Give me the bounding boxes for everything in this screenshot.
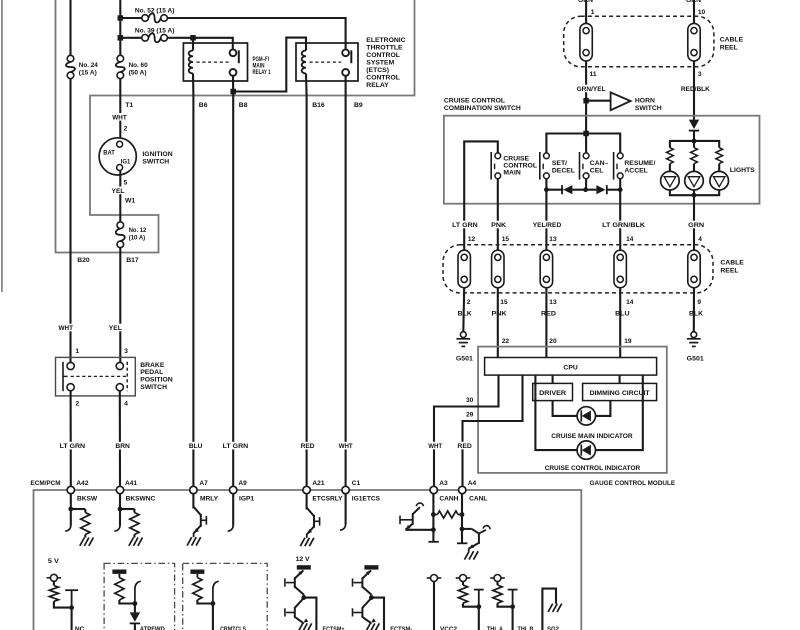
svg-text:PNK: PNK [492, 311, 507, 318]
fuse No.52 (15 A) [142, 15, 149, 22]
switch CAN-CEL [579, 152, 581, 180]
svg-text:WHT: WHT [59, 325, 74, 332]
DIMMING CIRCUIT box [583, 383, 657, 400]
wire battery feed to ignition switch [119, 0, 121, 56]
node junction switch feed bus [583, 131, 589, 137]
wire cruise control indicator to CPU right [596, 375, 643, 450]
wire label RED/BLK [680, 85, 711, 93]
svg-text:RESUME/: RESUME/ [624, 160, 655, 167]
wire label BRN [114, 442, 130, 450]
wire GRN to cable reel pin 10 [693, 0, 695, 23]
svg-text:RELAY 1: RELAY 1 [253, 69, 271, 76]
cable reel upper dashed box [564, 16, 714, 67]
svg-text:GRN: GRN [688, 222, 704, 229]
NC internal stub and bar [71, 590, 73, 607]
svg-text:ETCSRLY: ETCSRLY [312, 495, 343, 502]
svg-text:LT GRN: LT GRN [452, 222, 478, 229]
svg-text:No. 39 (15 A): No. 39 (15 A) [135, 28, 175, 35]
THL B internal stub and bar [512, 590, 514, 607]
svg-text:CONTROL: CONTROL [366, 75, 400, 82]
svg-text:HORN: HORN [635, 98, 655, 105]
svg-text:LT GRN: LT GRN [60, 443, 86, 450]
switch RESUME/ACCEL [613, 152, 615, 180]
wire B9 to ECM C1 (WHT) [345, 96, 347, 487]
svg-text:A41: A41 [125, 480, 137, 487]
svg-text:LT GRN/BLK: LT GRN/BLK [602, 222, 645, 229]
wire ETCS coil to B16 [305, 74, 308, 96]
transistor CANH driver [412, 513, 414, 525]
diode set-cancel [563, 185, 572, 194]
node junction ATPFWD [133, 601, 138, 606]
wire label YEL/RED [532, 221, 563, 229]
svg-text:14: 14 [626, 299, 634, 306]
power bar ECTSM+ 12V [297, 565, 311, 569]
node junction ECTSM+ [301, 595, 306, 600]
wire set/decel to diode bus [545, 179, 547, 190]
ground G501 right [691, 332, 697, 338]
node junction THL B [510, 604, 515, 609]
svg-text:RED: RED [457, 443, 472, 450]
resistor light centre [693, 141, 695, 148]
svg-text:PNK: PNK [491, 222, 506, 229]
svg-text:BLK: BLK [689, 311, 703, 318]
svg-text:CANL: CANL [469, 495, 487, 502]
svg-text:VCC2: VCC2 [440, 626, 457, 630]
svg-text:13: 13 [549, 299, 557, 306]
svg-text:BLU: BLU [189, 443, 203, 450]
wire fuse No.52 feed line [120, 17, 142, 19]
wire label RED [300, 442, 316, 450]
wire B8 to ECM A9 (LT GRN) [232, 96, 234, 487]
svg-text:A4: A4 [468, 480, 477, 487]
node junction CANH-resistor [431, 512, 436, 517]
LED cruise main indicator [577, 407, 595, 425]
relay ETCS coil [302, 51, 306, 74]
node terminal A3 (CANH) [430, 486, 437, 493]
wire label PNK lower [491, 309, 508, 317]
node junction horn branch [583, 98, 589, 104]
svg-text:4: 4 [698, 236, 702, 243]
wire label BLK left [457, 309, 473, 317]
svg-text:GRN/YEL: GRN/YEL [577, 86, 606, 93]
wire BLK to ground G501 right [693, 288, 695, 332]
wire GRN lamps to reel pin 4 [693, 190, 695, 250]
svg-text:13: 13 [549, 236, 557, 243]
connector cable reel lower 13-13 [540, 250, 552, 288]
svg-text:CRMTCLS: CRMTCLS [220, 626, 246, 630]
brake pedal position switch box [56, 357, 136, 396]
svg-text:ECTSM-: ECTSM- [390, 626, 412, 630]
node terminal A41 (BKSWNC) [116, 486, 123, 493]
fuse No.60 (50 A) [117, 55, 124, 62]
svg-text:RED: RED [301, 443, 315, 450]
wire DRIVER to cruise main indicator [553, 401, 578, 416]
relay PGM-FI contact top [230, 49, 237, 56]
wire PGM-FI contact to B8 [232, 76, 234, 96]
wire brake pin4 to A41 (BRN) [119, 391, 121, 487]
wire BKSW to pull resistor [71, 508, 86, 510]
wire from fuse No.24 down to brake pedal switch pin 1 [69, 79, 71, 364]
wire ignition IG1 down to W1 [119, 171, 121, 223]
svg-text:9: 9 [697, 299, 701, 306]
wire THL B resistor to junction [498, 603, 513, 607]
wire B16 to ECM A21 (RED) [306, 96, 308, 487]
svg-text:IGP1: IGP1 [239, 495, 254, 502]
node junction BKSWNC [118, 507, 123, 512]
svg-text:B9: B9 [354, 102, 363, 109]
ground MRLY [187, 537, 192, 545]
wire PGM-FI coil to B6 [192, 74, 194, 96]
svg-text:No. 12: No. 12 [129, 227, 147, 234]
svg-text:CABLE: CABLE [720, 36, 744, 43]
node junction CRMTCLS [211, 601, 216, 606]
lamp left [669, 164, 671, 172]
wire CPU to cruise control indicator left [535, 375, 577, 450]
svg-text:LT GRN: LT GRN [223, 443, 249, 450]
svg-text:No. 24: No. 24 [79, 62, 98, 69]
wire label LT GRN [59, 442, 87, 450]
svg-text:G501: G501 [456, 356, 473, 363]
wire ECTSM- output [371, 598, 384, 630]
diode ATPFWD [130, 612, 140, 621]
wire brake pin2 to A42 (LT GRN) [70, 391, 72, 487]
svg-text:B16: B16 [312, 102, 325, 109]
svg-text:THROTTLE: THROTTLE [366, 45, 403, 52]
svg-text:RELAY: RELAY [366, 82, 389, 89]
wire RED reel to CPU pin 20 [545, 288, 547, 358]
svg-text:No. 60: No. 60 [129, 62, 148, 69]
DRIVER box [533, 383, 573, 400]
ground ECTSM- [366, 623, 371, 630]
wire BKSWNC internal [119, 494, 121, 526]
IGP1 internal continuation arc [228, 526, 234, 532]
node junction on B8 wire [230, 89, 236, 95]
wire pin 29 RED to A4 [463, 375, 523, 486]
wire GRN/YEL from reel pin 11 [585, 61, 587, 134]
svg-text:SWITCH: SWITCH [142, 159, 169, 166]
svg-text:SET/: SET/ [552, 160, 567, 167]
svg-text:WHT: WHT [339, 443, 353, 450]
connector cable reel lower 4-9 [688, 250, 700, 288]
svg-text:BKSW: BKSW [77, 495, 98, 502]
wire LT GRN feed to cruise main switch [464, 141, 498, 250]
svg-text:SG2: SG2 [547, 626, 559, 630]
wire junction down to PGM-FI relay coil [192, 38, 194, 51]
wire diode to lights junction [693, 131, 695, 141]
wire diode bus right [607, 189, 620, 191]
resistor BKSW pull-down [81, 513, 90, 535]
BKSW internal continuation arc [65, 526, 71, 532]
node terminal A21 (ETCSRLY) [303, 486, 310, 493]
wire THL A output [478, 607, 480, 630]
svg-text:YEL: YEL [112, 188, 125, 195]
5V reference terminal circle [50, 574, 57, 581]
svg-text:MRLY: MRLY [200, 495, 219, 502]
wire diode bus left [546, 189, 563, 191]
svg-text:RED: RED [541, 311, 556, 318]
wire THL A to resistor [462, 582, 464, 586]
wire to junction ECTSM+ [303, 595, 305, 599]
svg-text:5 V: 5 V [48, 558, 60, 565]
ground G501 left [460, 332, 466, 338]
svg-text:CRUISE CONTROL: CRUISE CONTROL [444, 98, 505, 105]
wire THL A resistor to junction [463, 603, 479, 607]
svg-text:2: 2 [124, 126, 128, 133]
wire MRLY internal [192, 494, 194, 509]
svg-text:ECTSM+: ECTSM+ [323, 626, 345, 630]
ignition switch IG1 contact [117, 165, 123, 171]
svg-text:CAN–: CAN– [590, 160, 609, 167]
svg-text:3: 3 [698, 71, 702, 78]
wire ECTSM+ output [304, 598, 317, 630]
ground CANL driver [465, 551, 470, 559]
relay PGM-FI coil [189, 51, 193, 74]
svg-text:BRN: BRN [115, 443, 130, 450]
brake switch actuator bar [62, 362, 64, 391]
svg-text:C1: C1 [352, 480, 361, 487]
svg-text:15: 15 [502, 236, 510, 243]
wire to junction ECTSM- [370, 595, 372, 599]
horn switch symbol [611, 92, 631, 110]
lamp right [718, 164, 720, 172]
node terminal A7 (MRLY) [190, 486, 197, 493]
relay ETCS armature dashed link [310, 61, 342, 63]
svg-text:PEDAL: PEDAL [140, 369, 163, 376]
brake switch contact pin2 [67, 384, 74, 391]
wire cruise main indicator to DIMMING CIRCUIT [596, 401, 611, 416]
relay PGM-FI contact bar [238, 50, 240, 63]
svg-text:4: 4 [124, 401, 128, 408]
svg-text:IG1ETCS: IG1ETCS [352, 495, 381, 502]
resistor THL B [493, 585, 502, 603]
brake switch dashed link [71, 375, 127, 377]
svg-text:CEL: CEL [590, 167, 604, 174]
wire WHT feed from fuse No.24 [69, 0, 71, 58]
relay ETCS contact bottom [342, 69, 349, 76]
node junction lights feed [692, 139, 697, 144]
node terminal A42 (BKSW) [67, 486, 74, 493]
svg-text:B20: B20 [77, 257, 90, 264]
svg-text:GRN: GRN [578, 0, 593, 4]
wire BKSWNC to pull resistor [120, 508, 134, 510]
CRMTCLS internal stub hook [213, 581, 219, 603]
node junction BKSW [68, 507, 73, 512]
wire resistor to NC junction [54, 601, 72, 607]
wire No.52 line to ETCS relay contact [167, 18, 345, 50]
svg-text:B6: B6 [199, 102, 208, 109]
svg-text:NC: NC [75, 626, 85, 630]
fuse No.24 (15 A) [67, 55, 74, 62]
node terminal A9 (IGP1) [230, 486, 237, 493]
svg-text:ACCEL: ACCEL [624, 167, 647, 174]
wire left edge (cropped box) [1, 0, 3, 292]
node junction CANL-resistor [460, 512, 465, 517]
wire label RED lower [540, 309, 557, 317]
svg-text:30: 30 [466, 397, 474, 404]
svg-text:A9: A9 [238, 480, 247, 487]
svg-text:CRUISE CONTROL INDICATOR: CRUISE CONTROL INDICATOR [545, 465, 641, 472]
svg-text:1: 1 [591, 9, 595, 16]
node junction ECTSM- [369, 595, 374, 600]
power bar ECTSM- 12V [364, 565, 378, 569]
VCC2 terminal circle [431, 575, 438, 582]
wire resistor to CRMTCLS junction [197, 600, 213, 604]
svg-text:(15 A): (15 A) [79, 70, 97, 77]
svg-text:2: 2 [75, 401, 79, 408]
svg-text:BRAKE: BRAKE [140, 362, 165, 369]
svg-text:GAUGE CONTROL MODULE: GAUGE CONTROL MODULE [590, 480, 676, 487]
svg-text:B17: B17 [126, 257, 139, 264]
wire ETCS contact to B9 [345, 76, 347, 96]
wire to horn switch [586, 100, 610, 102]
wire SG2 to internal ground [542, 589, 556, 630]
svg-text:SWITCH: SWITCH [140, 384, 167, 391]
wire lamps common bus [670, 190, 719, 195]
wire 5V to resistor [53, 581, 55, 585]
node junction No.39 branch [118, 35, 124, 41]
wire CANH internal [432, 494, 434, 542]
wire fuse No.60 to ignition switch terminal T1 [119, 79, 121, 142]
brake switch right dashed bar [126, 362, 128, 391]
wire resume/accel to diode bus [619, 179, 621, 190]
svg-text:A21: A21 [312, 480, 324, 487]
relay PGM-FI contact bottom [230, 69, 237, 76]
svg-text:A42: A42 [76, 480, 88, 487]
relay ETCS contact bar [350, 50, 352, 63]
resistor CAN termination [433, 514, 437, 516]
transistor ECTSM- low-side [362, 598, 371, 608]
svg-text:14: 14 [626, 236, 634, 243]
relay ETCS CONTROL RELAY box [296, 43, 358, 81]
svg-text:WHT: WHT [428, 443, 442, 450]
svg-text:(10 A): (10 A) [129, 235, 146, 242]
svg-text:1: 1 [75, 348, 79, 355]
wire THL B output [512, 607, 514, 630]
power bar CRMTCLS [190, 570, 204, 574]
relay PGM-FI MAIN RELAY 1 box [183, 43, 247, 81]
svg-text:3: 3 [124, 348, 128, 355]
relay ETCS contact top [342, 49, 349, 56]
wire label GRN/YEL [576, 85, 607, 93]
svg-text:CONTROL: CONTROL [503, 163, 537, 170]
transistor ECTSM+ high-side [294, 577, 296, 588]
op ignition switch circle [99, 138, 136, 175]
wire CANH transistor emitter to junction [405, 529, 433, 531]
wire PNK reel to CPU pin 22 [497, 288, 499, 358]
wire label YEL above brake switch [108, 324, 123, 332]
svg-text:REEL: REEL [720, 45, 738, 52]
wire label WHT [111, 113, 128, 121]
svg-text:No. 52 (15 A): No. 52 (15 A) [135, 7, 175, 14]
wire diode to ATPFWD output [134, 623, 136, 630]
wire CPU to DIMMING CIRCUIT [619, 375, 621, 383]
switch SET/DECEL [539, 152, 541, 180]
svg-text:DIMMING CIRCUIT: DIMMING CIRCUIT [590, 390, 650, 397]
wire cancel to diode bus [585, 179, 587, 190]
svg-text:COMBINATION SWITCH: COMBINATION SWITCH [444, 105, 521, 112]
svg-text:(50 A): (50 A) [129, 70, 147, 77]
fuse No.12 (10 A) [117, 222, 124, 229]
ground BKSW [80, 538, 85, 546]
svg-text:CANH: CANH [439, 495, 458, 502]
node junction CANL-transistor [460, 527, 465, 532]
wire label RED gauge [456, 442, 473, 450]
svg-text:DRIVER: DRIVER [539, 390, 566, 397]
CANH wire end bar [428, 541, 438, 543]
svg-text:A3: A3 [439, 480, 448, 487]
transistor ECTSM+ low-side [295, 598, 304, 608]
svg-text:29: 29 [466, 412, 474, 419]
ground BKSWNC [129, 538, 134, 546]
wire label LT GRN cruise [451, 221, 479, 229]
node junction PGM-FI relay coil feed [190, 35, 196, 41]
wire CRMTCLS output [212, 604, 214, 630]
svg-text:22: 22 [502, 338, 510, 345]
THL A terminal circle [460, 575, 467, 582]
diode cancel-resume [596, 185, 605, 194]
svg-text:YEL: YEL [109, 325, 122, 332]
ECM/PCM box [34, 490, 582, 630]
transistor MRLY driver [193, 507, 200, 516]
node junction set/decel [544, 187, 549, 192]
wire CPU to DRIVER [552, 375, 554, 383]
power bar ATPFWD [112, 570, 126, 574]
svg-text:LIGHTS: LIGHTS [730, 167, 755, 174]
svg-text:11: 11 [590, 71, 597, 78]
wire YEL/RED from set/decel [545, 190, 547, 251]
wire CANL internal [461, 494, 463, 544]
brake switch contact pin3 [116, 362, 123, 369]
svg-text:CONTROL: CONTROL [366, 52, 400, 59]
svg-text:W1: W1 [125, 197, 135, 204]
svg-text:YEL/RED: YEL/RED [533, 222, 562, 229]
dash-dot box CRMTCLS [183, 563, 268, 630]
wire label GRN lights [687, 221, 705, 229]
wire B6 to ECM A7 (BLU) [192, 96, 194, 487]
wire diode bus centre [572, 189, 596, 191]
lamp centre [693, 164, 695, 172]
svg-text:THL B: THL B [518, 626, 534, 630]
wire VCC2 output [433, 582, 435, 630]
wire pin 30 WHT to A3 [434, 375, 499, 486]
ignition switch BAT contact [117, 141, 123, 147]
svg-text:DECEL: DECEL [552, 167, 575, 174]
svg-text:A7: A7 [199, 480, 208, 487]
wire label LT GRN 2 [222, 442, 250, 450]
wire label BLU [188, 442, 204, 450]
svg-text:12 V: 12 V [296, 556, 311, 563]
wire LT GRN/BLK from resume/accel [619, 190, 621, 251]
wire GRN to cable reel pin 1 [585, 0, 587, 23]
wire resistor to ATPFWD junction [119, 600, 134, 604]
svg-text:SYSTEM: SYSTEM [366, 60, 394, 67]
svg-text:2: 2 [467, 299, 471, 306]
node junction CANH-transistor [431, 527, 436, 532]
svg-text:15: 15 [500, 299, 508, 306]
LED cruise control indicator [577, 441, 595, 459]
svg-text:5: 5 [124, 180, 128, 187]
svg-text:POSITION: POSITION [140, 377, 173, 384]
resistor 5V pull-up NC [49, 586, 58, 602]
wire BLK to ground G501 left [462, 288, 465, 332]
node junction THL A [476, 604, 481, 609]
wire cancel switch feed [585, 134, 587, 153]
svg-text:19: 19 [624, 338, 632, 345]
CANL wire end bar [457, 542, 467, 544]
svg-text:CPU: CPU [563, 365, 577, 372]
connector cable reel lower 14-14 [614, 250, 626, 288]
wire IG1ETCS internal [345, 494, 347, 525]
